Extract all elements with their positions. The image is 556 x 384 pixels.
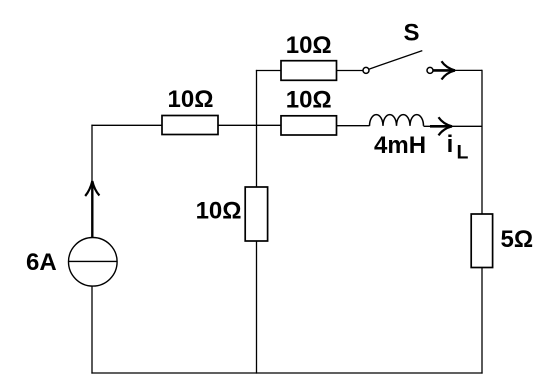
wire inductor to right rail xyxy=(424,125,483,127)
svg-text:10Ω: 10Ω xyxy=(286,87,332,114)
current source I1 chord line xyxy=(69,260,118,262)
switch S pole contact circle xyxy=(363,67,369,73)
svg-text:10Ω: 10Ω xyxy=(168,86,214,113)
svg-text:5Ω: 5Ω xyxy=(501,226,534,253)
svg-text:10Ω: 10Ω xyxy=(286,32,332,59)
svg-text:S: S xyxy=(403,20,419,47)
wire bottom rail xyxy=(91,372,482,374)
switch S blade (open) xyxy=(369,51,423,70)
wire middle vertical upper (node B up to top branch) xyxy=(256,70,258,125)
wire top-left horizontal from node to resistor R1 xyxy=(91,124,162,126)
svg-text:6A: 6A xyxy=(26,249,57,276)
resistor R1 10ohm horizontal xyxy=(162,116,218,135)
wire left vertical top segment xyxy=(91,125,93,181)
current source I1 arrow head up xyxy=(85,181,92,196)
wire middle vertical (node B down to resistor R5) xyxy=(256,125,258,187)
svg-text:4mH: 4mH xyxy=(374,132,426,159)
current direction arrow on switch wire xyxy=(433,61,455,79)
inductor L1 4mH xyxy=(370,115,424,126)
wire second branch resistor R3 xyxy=(281,116,337,135)
svg-text:10Ω: 10Ω xyxy=(196,197,242,224)
resistor R5 10ohm vertical xyxy=(245,187,267,241)
switch S throw contact circle xyxy=(427,67,433,73)
current source I1 arrow stem thick xyxy=(91,181,93,238)
wire source bottom to bottom rail xyxy=(91,286,93,374)
current arrow iL on inductor wire xyxy=(430,117,452,135)
resistor R2 10ohm top branch xyxy=(281,61,337,81)
svg-text:i: i xyxy=(447,131,454,158)
wire middle vertical lower xyxy=(256,241,258,374)
wire R1 to node B xyxy=(218,124,281,126)
wire switch throw to right rail with current arrow xyxy=(433,69,482,71)
wire right rail upper xyxy=(481,70,483,214)
wire top branch to resistor R2 xyxy=(256,70,281,72)
svg-text:L: L xyxy=(457,142,469,164)
wire R3 to inductor L1 xyxy=(337,125,370,127)
wire R2 to switch pole xyxy=(337,70,364,72)
wire right rail lower xyxy=(481,268,483,374)
resistor R4 5ohm vertical xyxy=(471,214,492,268)
current source I1 circle xyxy=(69,237,118,286)
